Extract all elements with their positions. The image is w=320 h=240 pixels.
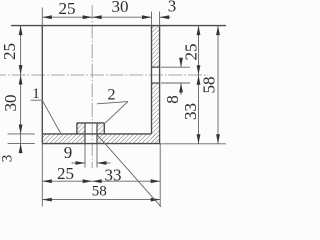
extension line wall left top (151, 12, 153, 26)
part outline: top edge with extensions (11, 25, 226, 27)
arrow top 30 left (92, 15, 102, 19)
svg-text:2: 2 (108, 87, 116, 104)
boss hole left edge (84, 123, 86, 144)
section hatch: boss left cell (77, 123, 85, 134)
svg-text:25: 25 (181, 44, 200, 61)
arrow top 30 right (142, 15, 152, 19)
boss top edge (77, 122, 104, 124)
bottom extension line right (159, 144, 161, 207)
left plate top extension line (8, 133, 35, 135)
svg-text:25: 25 (57, 164, 74, 183)
left dimension line (20, 26, 22, 153)
arrow 9 left outside (76, 161, 86, 165)
arrow 9 right outside (97, 161, 107, 165)
arrow right 58 top (216, 26, 220, 35)
long leader diagonal to hole (97, 134, 161, 207)
arrow bottom 58 right (151, 198, 161, 202)
arrow left 25 bottom (19, 65, 23, 75)
bottom extension line left (41, 144, 43, 207)
boss hole right edge (96, 123, 98, 144)
bottom extension line hole left (84, 144, 86, 168)
arrow left 30 top (19, 75, 23, 85)
part outline: cavity left edge (41, 26, 43, 134)
right extension line hole bottom (161, 82, 190, 84)
arrow right 25 bottom (197, 65, 201, 75)
arrow bottom 33 right (151, 179, 161, 183)
arrow left 30 bottom (19, 125, 23, 135)
arrow right 33 top (197, 75, 201, 85)
arrow top 25 right (83, 15, 93, 19)
left plate bottom extension line (8, 143, 35, 145)
top dim 3 outside arrow tail (160, 16, 171, 18)
svg-text:3: 3 (0, 155, 15, 163)
section hatch: bottom plate left of hole (42, 134, 85, 144)
section hatch: boss right cell (97, 123, 104, 134)
svg-text:30: 30 (1, 95, 20, 112)
svg-text:25: 25 (0, 43, 19, 60)
svg-text:30: 30 (112, 0, 129, 16)
bottom dim line 58 (42, 199, 160, 201)
part label 2 leader (104, 102, 128, 125)
bottom extension line hole right (96, 144, 98, 168)
svg-text:58: 58 (92, 184, 107, 200)
part label 2 underline (97, 102, 128, 104)
part outline: plate left edge (41, 134, 43, 144)
right bottom extension line (160, 143, 226, 145)
svg-text:9: 9 (64, 143, 73, 162)
side hole bottom edge (151, 82, 160, 84)
arrow left 25 top (19, 26, 23, 35)
part label 1 underline (31, 99, 43, 101)
part outline: plate top edge (42, 133, 151, 135)
part outline: wall left edge (151, 26, 153, 134)
boss right edge (103, 123, 105, 134)
section hatch: right wall lower part + corner (152, 83, 160, 144)
top dimension line (42, 16, 151, 18)
svg-text:25: 25 (59, 0, 76, 18)
arrow bottom 25 right (83, 179, 93, 183)
svg-text:1: 1 (32, 86, 40, 102)
vertical centerline of boss hole (91, 5, 93, 168)
svg-text:33: 33 (105, 166, 122, 185)
extension stub above top-left corner (41, 8, 43, 26)
svg-text:8: 8 (163, 95, 182, 104)
arrow top 3 outside (160, 15, 170, 19)
part outline: wall right edge (159, 26, 161, 144)
arrow bottom 25 left (42, 179, 52, 183)
arrow left 3 bottom outside (19, 144, 23, 154)
svg-text:3: 3 (168, 0, 177, 16)
section hatch: right wall upper part (152, 26, 160, 68)
dim 9 arrow tail right (97, 162, 111, 164)
bottom dim line 25/33 (42, 180, 160, 182)
part outline: plate bottom edge (42, 143, 160, 145)
boss left edge (76, 123, 78, 134)
part label 1 leader (42, 100, 61, 134)
arrow right 58 bottom (216, 134, 220, 144)
arrow bottom 58 left (42, 198, 52, 202)
side hole top edge (151, 66, 160, 68)
right extension line hole top (161, 66, 190, 68)
svg-text:58: 58 (199, 77, 218, 94)
arrow top 25 left (42, 15, 52, 19)
horizontal centerline of side hole (0, 74, 208, 76)
dim 9 arrow tail left (72, 162, 86, 164)
arrow 8 upper outside (179, 58, 183, 67)
section hatch: bottom plate right of hole (97, 134, 160, 144)
arrow right 25 top (197, 26, 201, 35)
dim 8 arrow stem lower (180, 83, 182, 95)
right dim line 25/33 (198, 26, 200, 144)
arrow bottom 33 left (92, 179, 102, 183)
arrow 8 lower outside (179, 83, 183, 93)
extension line wall right top (159, 12, 161, 26)
right dim line 58 (217, 26, 219, 144)
arrow right 33 bottom (197, 134, 201, 144)
dim 8 arrow stem upper (180, 59, 182, 68)
svg-text:33: 33 (181, 103, 200, 120)
